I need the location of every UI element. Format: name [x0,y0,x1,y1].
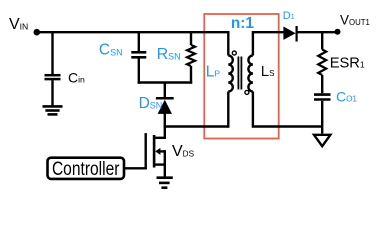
wire CSN branch upper [138,31,140,51]
wire ESR branch upper [321,31,323,50]
node VIN dot [34,29,41,36]
transformer boundary box (red) [204,14,278,139]
transformer primary LP [227,31,229,56]
Controller box [48,158,125,179]
wire CSN branch lower [138,59,140,84]
svg-text:ESR1: ESR1 [330,55,365,71]
diode DSN [156,98,174,114]
ground output (open triangle) [314,135,330,146]
wire top rail VIN to primary [37,31,229,33]
wire DSN cathode stub [164,83,166,99]
wire Cin branch lower [51,80,53,105]
wire DSN anode to drain node [164,113,166,139]
wire CO1 to ground [321,101,323,134]
ground below MOSFET [157,178,173,188]
transformer core [237,57,239,90]
wire controller to gate [124,167,147,169]
transformer secondary LS [253,32,284,55]
wire snubber bottom [138,81,193,83]
polarity dot primary [232,51,236,55]
wire RSN branch upper [190,31,192,45]
wire ESR to CO1 [321,75,323,93]
svg-text:Controller: Controller [52,159,120,180]
resistor RSN [187,45,195,66]
ground below Cin [43,106,63,114]
wire Cin branch upper [51,31,53,74]
capacitor CO1 [314,95,331,100]
capacitor Cin [45,75,61,79]
diode D1 [283,26,296,42]
node VOUT1 dot [335,29,341,35]
polarity dot secondary [245,90,249,94]
svg-text:n:1: n:1 [231,15,255,32]
transistor Q1 (MOSFET) [146,133,166,177]
wire RSN branch lower [190,66,192,84]
resistor ESR1 [318,50,326,76]
wire D1 to VOUT [297,31,336,33]
wire drain rail to primary [164,125,229,127]
capacitor CSN [131,52,146,57]
